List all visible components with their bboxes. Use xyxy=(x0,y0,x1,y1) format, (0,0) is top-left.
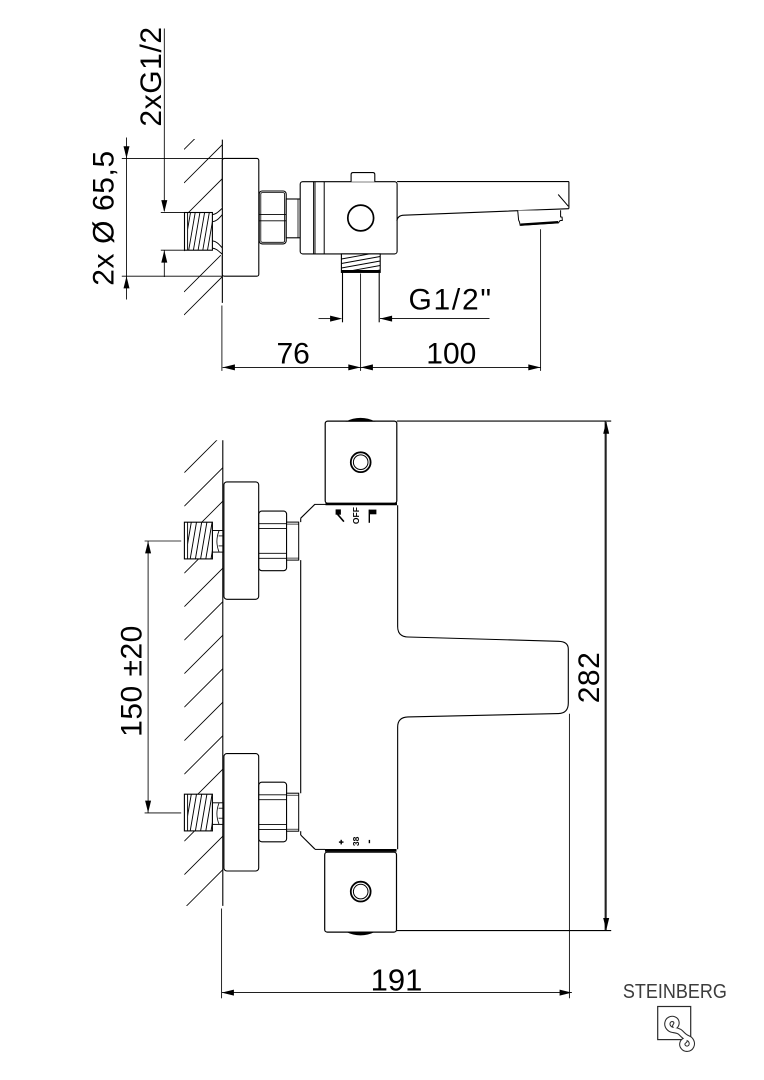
chamfer top xyxy=(301,504,315,518)
diverter handle grip arc xyxy=(346,418,376,422)
svg-text:38: 38 xyxy=(351,836,361,846)
union nut (side view) xyxy=(259,191,286,244)
escutcheon plate (side view) xyxy=(222,158,258,276)
label + xyxy=(339,841,344,843)
handle gap dark line bottom xyxy=(325,849,397,852)
dimension 282 xyxy=(605,422,607,930)
union nut #2 (front view) xyxy=(259,782,287,842)
mixer body left edge xyxy=(300,518,302,522)
svg-text:282: 282 xyxy=(573,652,606,704)
dimension 2xG1/2 leader xyxy=(163,29,165,212)
svg-text:OFF: OFF xyxy=(351,507,361,524)
threaded outlet stub xyxy=(341,254,380,273)
logo square xyxy=(658,1007,691,1040)
wall line (front view) xyxy=(222,440,224,906)
wall line (top view) xyxy=(221,140,223,303)
dimension 150 pm 20 xyxy=(147,541,149,813)
dimension 100 xyxy=(361,366,541,368)
dimension G1/2 inch leader xyxy=(319,318,331,320)
dimension 76 xyxy=(223,366,361,368)
body bottom edge xyxy=(397,930,611,932)
temperature handle grip arc xyxy=(346,932,376,936)
wall inlet fitting G1/2 #2 (front view) xyxy=(212,803,222,825)
dimension 2x Ø65,5 xyxy=(126,138,128,300)
chamfer bottom xyxy=(301,835,315,849)
diverter handle screw xyxy=(351,452,371,472)
svg-text:100: 100 xyxy=(426,337,476,370)
wall hatching (front view) xyxy=(184,434,223,908)
svg-text:150 ±20: 150 ±20 xyxy=(116,625,149,737)
svg-text:2x Ø 65,5: 2x Ø 65,5 xyxy=(88,150,121,285)
valve face circle xyxy=(348,205,374,231)
body right edge xyxy=(604,421,606,930)
logo S swirl xyxy=(667,1019,692,1049)
diverter handle (top) xyxy=(325,421,397,503)
aerator xyxy=(518,210,563,225)
label - xyxy=(368,840,370,843)
thermostat valve body (side view) xyxy=(300,182,397,254)
wall hatching (top view) xyxy=(184,111,222,315)
wall inlet fitting G1/2 #1 (front view) xyxy=(212,531,222,553)
spout icon xyxy=(336,509,341,514)
svg-text:76: 76 xyxy=(277,337,310,370)
outlet pipe xyxy=(342,272,344,322)
waist notch outline xyxy=(398,505,569,849)
union nut #1 (front view) xyxy=(259,511,287,571)
extension lines xyxy=(221,306,223,371)
body top edge xyxy=(397,420,611,422)
temperature handle screw xyxy=(351,882,371,902)
extension from waist face xyxy=(568,714,570,999)
svg-text:2xG1/2: 2xG1/2 xyxy=(135,26,168,126)
dimension 191 xyxy=(222,992,572,994)
escutcheon plate #1 (front view) xyxy=(224,482,259,599)
shower icon xyxy=(368,510,370,523)
spacer cylinder xyxy=(286,199,300,238)
temperature handle (bottom) xyxy=(325,852,397,932)
svg-text:G1/2": G1/2" xyxy=(409,284,493,317)
wall inlet fitting G1/2 (top view) xyxy=(185,213,213,251)
handle gap dark line top xyxy=(326,503,398,506)
bath spout (side view) xyxy=(397,181,569,183)
connection tail #2 xyxy=(287,793,299,831)
escutcheon plate #2 (front view) xyxy=(224,754,259,871)
top button xyxy=(351,173,375,182)
svg-text:STEINBERG: STEINBERG xyxy=(623,980,727,1003)
svg-text:191: 191 xyxy=(371,963,423,998)
connection tail #1 xyxy=(287,522,299,560)
inlet tail transition curves xyxy=(212,206,222,256)
